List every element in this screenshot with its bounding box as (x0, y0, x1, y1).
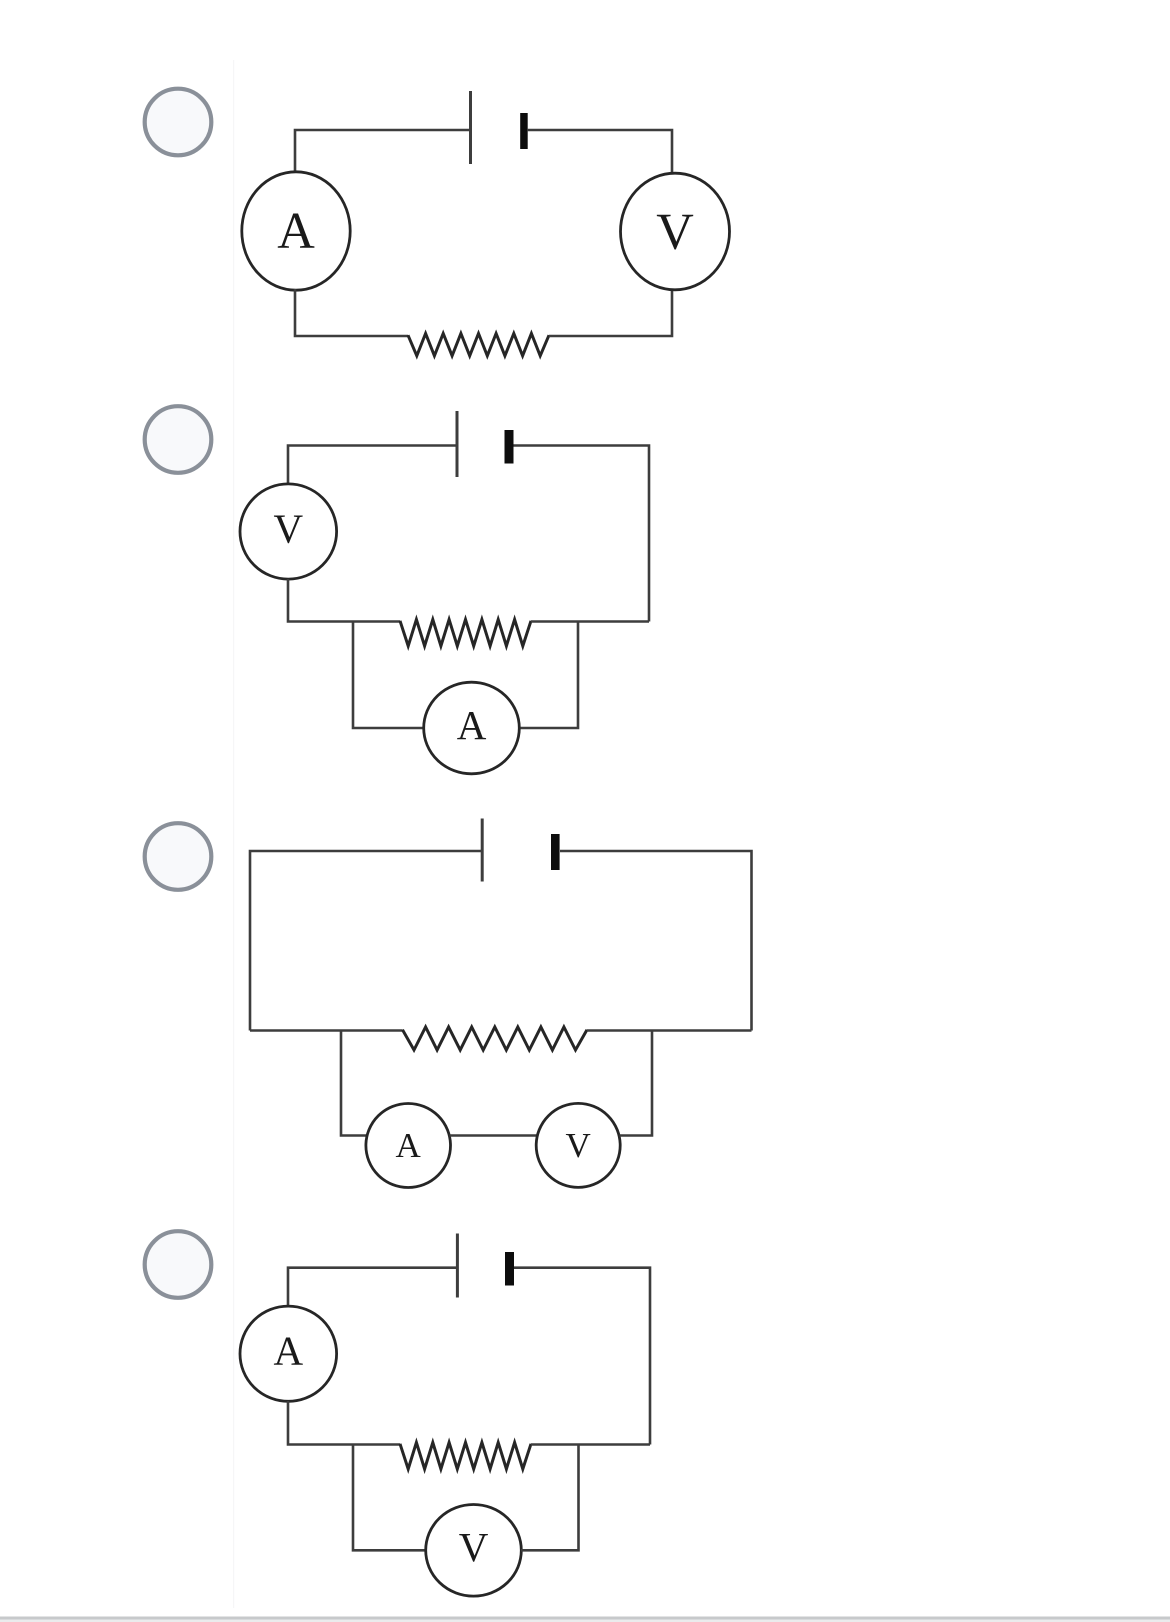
wire c3 branch left (341, 1031, 367, 1136)
meter V3 voltmeter circle (536, 1103, 620, 1187)
battery BT2 short thick plate (negative) (505, 430, 514, 464)
meter A1 ammeter circle (242, 172, 350, 290)
meter A3 ammeter circle (366, 1104, 451, 1188)
meter V2 voltmeter circle (240, 484, 337, 579)
wire c1 bottom right (549, 290, 672, 336)
faint option-image left edge (233, 60, 234, 1608)
wire c1 top right (527, 130, 672, 175)
wire c4 bottom right (531, 1443, 650, 1446)
resistor R2 (400, 620, 531, 647)
wire c3 bottom right (587, 1029, 752, 1032)
wire c2 left lower (288, 579, 400, 622)
wire c4 branch left (353, 1445, 426, 1551)
svg-text:A: A (273, 1328, 303, 1374)
wire c2 bottom right (531, 620, 649, 623)
battery BT4 long plate (positive) (456, 1234, 459, 1298)
svg-text:V: V (273, 505, 303, 551)
radio button option 3 (145, 823, 212, 890)
svg-text:V: V (566, 1126, 591, 1165)
wire c3 top right (560, 851, 752, 1031)
wire c2 branch left (353, 622, 426, 729)
wire c2 branch right (521, 622, 579, 729)
resistor R4 (400, 1443, 531, 1470)
meter A2 ammeter circle (424, 682, 520, 774)
wire c4 top left (288, 1268, 457, 1306)
wire c2 top left (288, 446, 457, 485)
bottom divider line (0, 1617, 1170, 1620)
meter V4 voltmeter circle (426, 1505, 522, 1597)
svg-text:A: A (396, 1126, 422, 1165)
svg-text:V: V (656, 204, 694, 261)
wire c4 top right (514, 1268, 650, 1445)
bottom area below divider (0, 1620, 1170, 1622)
radio button option 4 (145, 1231, 212, 1298)
battery BT1 long plate (positive) (469, 91, 472, 164)
battery BT3 short thick plate (negative) (551, 834, 560, 870)
wire c4 branch right (521, 1445, 579, 1551)
resistor R3 (403, 1027, 588, 1050)
resistor R1 (408, 334, 549, 356)
meter V1 voltmeter circle (621, 173, 730, 290)
wire c3 bottom left (250, 1029, 403, 1032)
wire c1 top left (295, 130, 470, 174)
wire c3 top left (250, 851, 482, 1031)
battery BT4 short thick plate (negative) (505, 1252, 514, 1286)
radio button option 1 (145, 89, 212, 156)
battery BT1 short thick plate (negative) (520, 113, 528, 149)
wire c3 branch right (620, 1031, 653, 1136)
svg-text:A: A (277, 203, 315, 260)
wire c1 bottom left (295, 289, 408, 336)
meter A4 ammeter circle (240, 1306, 337, 1401)
svg-text:V: V (459, 1524, 489, 1570)
wire c3 branch middle (450, 1134, 538, 1137)
wire c2 top right (514, 446, 650, 622)
wire c4 left lower (288, 1401, 400, 1445)
radio button option 2 (145, 406, 212, 473)
svg-text:A: A (457, 702, 487, 748)
battery BT2 long plate (positive) (456, 411, 459, 477)
battery BT3 long plate (positive) (481, 819, 484, 882)
